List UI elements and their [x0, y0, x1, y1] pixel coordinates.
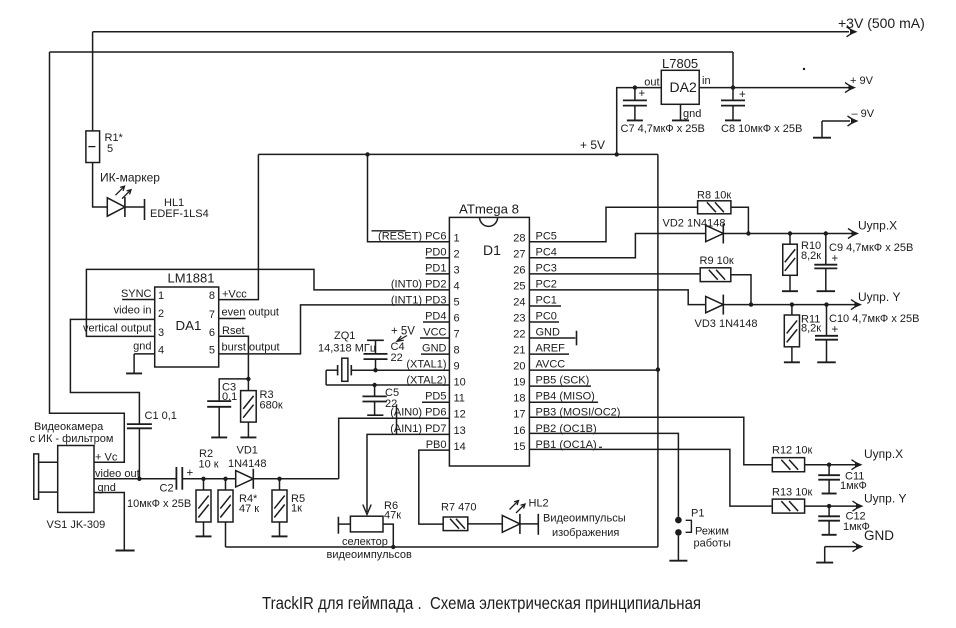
- svg-text:VCC: VCC: [423, 327, 446, 339]
- svg-text:2: 2: [454, 248, 460, 260]
- label L7805: [662, 56, 698, 71]
- svg-text:R7 470: R7 470: [441, 502, 476, 514]
- net +9V: [845, 75, 874, 93]
- svg-text:AREF: AREF: [536, 343, 566, 355]
- wire bottom rail: [226, 546, 658, 548]
- label +5V top: [580, 138, 605, 152]
- resistor R1: [86, 131, 100, 163]
- svg-text:1: 1: [454, 232, 460, 244]
- wire HL2 cathode: [520, 523, 538, 525]
- label C2: [160, 483, 174, 495]
- label + Vc: [95, 452, 118, 464]
- label R12 10к: [772, 445, 812, 457]
- wire XTAL2: [326, 384, 449, 386]
- label C10 value: [829, 313, 919, 325]
- wire SYNC stub: [122, 299, 155, 301]
- capacitor C12: [818, 506, 840, 521]
- svg-text:ИК-маркер: ИК-маркер: [100, 171, 160, 185]
- wire R4 to bottom rail: [225, 522, 227, 547]
- label R3: [260, 389, 274, 401]
- node DA2 out junction: [633, 85, 637, 89]
- label HL1: [164, 197, 184, 209]
- svg-text:6: 6: [209, 327, 215, 339]
- node C5 junction: [372, 383, 376, 387]
- resistor R7: [443, 517, 468, 531]
- resistor R4: [218, 479, 233, 522]
- label C9 value: [829, 242, 913, 254]
- diode VD1: [236, 469, 254, 489]
- ground camera: [116, 550, 135, 552]
- label R11 value: [801, 323, 821, 335]
- wire video to AIN0: [339, 418, 450, 479]
- svg-text:8: 8: [454, 345, 460, 357]
- diode VD2: [706, 224, 724, 244]
- svg-text:20: 20: [513, 361, 525, 373]
- pin 7 VCC: [420, 327, 460, 341]
- pin 26 PC3: [513, 262, 557, 276]
- svg-text:ZQ1: ZQ1: [334, 330, 355, 342]
- pin 12 (AIN0) PD6: [390, 407, 466, 421]
- svg-text:PD1: PD1: [425, 262, 446, 274]
- svg-text:6: 6: [454, 313, 460, 325]
- ground C7: [627, 106, 643, 121]
- svg-text:Uупр. Y: Uупр. Y: [864, 492, 907, 506]
- wire PC5 to R8: [529, 207, 697, 242]
- ground GND net: [816, 547, 833, 563]
- svg-text:Видеокамера: Видеокамера: [34, 421, 104, 433]
- svg-text:22: 22: [385, 398, 397, 410]
- svg-text:с ИК - фильтром: с ИК - фильтром: [30, 433, 114, 445]
- svg-text:28: 28: [513, 232, 525, 244]
- label работы: [694, 538, 731, 550]
- label R4*: [239, 493, 258, 505]
- switch P1 contacts: [675, 517, 691, 536]
- svg-text:4: 4: [158, 344, 164, 356]
- wire R6 right lead: [383, 524, 393, 547]
- label ATmega 8: [459, 202, 519, 217]
- svg-text:EDEF-1LS4: EDEF-1LS4: [150, 208, 209, 220]
- camera lens: [34, 454, 58, 499]
- pin 8 GND: [421, 343, 460, 357]
- op-amp U? sync separator DA1: [155, 287, 219, 367]
- label C2 value: [127, 498, 191, 510]
- pin 25 PC2: [513, 278, 557, 292]
- pin 11 PD5: [422, 391, 465, 405]
- svg-text:(RESET) PC6: (RESET) PC6: [378, 230, 446, 242]
- label R1 value 5: [107, 143, 113, 155]
- label gnd camera: [98, 482, 116, 494]
- svg-text:+ 5V: + 5V: [391, 326, 415, 338]
- label Видеоимпульсы: [543, 513, 626, 525]
- net +3V (500 mA): [838, 15, 925, 37]
- wire +Vcc to +5V: [219, 154, 259, 299]
- resistor R2: [196, 479, 211, 522]
- resistor R8: [698, 201, 731, 214]
- wire PB0 to R7: [419, 450, 450, 524]
- pin 22 GND: [513, 327, 560, 341]
- ground C11: [822, 480, 837, 494]
- label VD1: [237, 444, 258, 456]
- svg-text:9: 9: [454, 361, 460, 373]
- terminal C5: [367, 414, 383, 416]
- svg-text:10 к: 10 к: [199, 458, 219, 470]
- wire R9 to Y line: [731, 275, 751, 305]
- svg-text:GND: GND: [536, 327, 561, 339]
- label VD2 1N4148: [663, 218, 726, 230]
- wire DA1 gnd: [134, 353, 155, 355]
- wire R6 left lead: [338, 523, 350, 525]
- label gnd DA2: [683, 108, 701, 120]
- svg-text:out: out: [644, 77, 659, 89]
- wire stray AIN segment: [396, 404, 398, 434]
- svg-text:изображения: изображения: [552, 527, 619, 539]
- capacitor C4: [364, 340, 388, 370]
- label ИК-маркер: [100, 171, 160, 185]
- label DA1: [176, 318, 202, 333]
- node R9 junction: [749, 302, 753, 306]
- svg-text:P1: P1: [691, 508, 704, 520]
- wire +9V down left side: [50, 52, 125, 462]
- svg-text:+: +: [739, 89, 746, 101]
- pin 16 PB2 (OC1B): [513, 423, 596, 437]
- net GND: [825, 528, 895, 552]
- label C12 value: [843, 521, 870, 533]
- wire DA2 in: [699, 87, 849, 89]
- pin 14 PB0: [426, 439, 466, 453]
- label gnd DA1: [133, 341, 151, 353]
- svg-text:LM1881: LM1881: [168, 271, 215, 286]
- label изображения: [552, 527, 619, 539]
- terminal GND pin22: [576, 331, 578, 346]
- pin 1 (RESET) PC6: [372, 230, 460, 244]
- node R6 bottom junction: [391, 545, 395, 549]
- label C7 value: [621, 123, 705, 135]
- capacitor C11: [818, 465, 840, 480]
- wire PC3 to R9: [529, 273, 700, 275]
- capacitor C8: [721, 88, 746, 106]
- ground DA1: [126, 354, 142, 374]
- svg-text:+: +: [187, 468, 194, 480]
- label R10: [801, 240, 821, 252]
- label R6 value: [384, 510, 401, 522]
- ground C10: [817, 340, 836, 363]
- wire X2 line: [805, 464, 856, 466]
- svg-text:24: 24: [513, 296, 525, 308]
- wire vertical output to INT0: [86, 269, 449, 336]
- svg-text:+ Vc: + Vc: [95, 452, 118, 464]
- svg-text:PD5: PD5: [425, 391, 446, 403]
- resistor R9: [700, 268, 731, 282]
- pin 15 trailing dash: [599, 446, 602, 448]
- label VD1 1N4148: [228, 458, 267, 470]
- svg-text:+ 9V: + 9V: [850, 75, 874, 87]
- svg-text:21: 21: [513, 345, 525, 357]
- svg-text:13: 13: [454, 425, 466, 437]
- node stray dot: [803, 68, 805, 70]
- pin 3 number: [158, 327, 164, 339]
- ground C12: [822, 521, 837, 535]
- svg-text:PC0: PC0: [536, 311, 557, 323]
- wire AVCC pin20: [529, 369, 658, 371]
- svg-text:(XTAL1): (XTAL1): [406, 359, 446, 371]
- resistor R13: [772, 499, 804, 513]
- svg-text:Режим: Режим: [695, 526, 729, 538]
- pin 4 (INT0) PD2: [391, 278, 460, 292]
- svg-text:video in: video in: [114, 305, 152, 317]
- wire Rset to C3: [219, 379, 248, 401]
- svg-text:burst output: burst output: [222, 342, 280, 354]
- wire +3V rail: [93, 31, 849, 33]
- svg-text:11: 11: [454, 393, 465, 405]
- svg-text:R8 10к: R8 10к: [697, 190, 731, 202]
- svg-text:Видеоимпульсы: Видеоимпульсы: [543, 513, 626, 525]
- svg-text:R9 10к: R9 10к: [700, 255, 734, 267]
- label C3: [222, 382, 236, 394]
- capacitor C7: [623, 88, 647, 106]
- pin 24 PC1: [513, 294, 561, 308]
- svg-text:PB4 (MISO): PB4 (MISO): [536, 391, 595, 403]
- wire PB1 to R13: [529, 449, 772, 506]
- svg-text:D1: D1: [483, 242, 501, 258]
- svg-text:27: 27: [513, 248, 525, 260]
- pin 19 PB5 (SCK): [513, 375, 591, 389]
- diode VD3: [706, 295, 724, 315]
- svg-text:3: 3: [454, 264, 460, 276]
- node C12 junction: [827, 504, 831, 508]
- pin 13 (AIN1) PD7: [390, 423, 466, 437]
- svg-text:+3V (500 mA): +3V (500 mA): [838, 15, 925, 31]
- wire +9V rail segment: [50, 51, 734, 53]
- svg-text:VD3 1N4148: VD3 1N4148: [695, 318, 758, 330]
- wire AIN1 to R6 wiper: [363, 434, 450, 514]
- capacitor C2: [176, 467, 193, 490]
- wire even output stub: [219, 318, 246, 320]
- pin 27 PC4: [513, 246, 557, 260]
- svg-text:8,2к: 8,2к: [801, 323, 821, 335]
- svg-text:22: 22: [513, 329, 525, 341]
- label C8 value: [721, 123, 802, 135]
- svg-text:+: +: [832, 324, 839, 336]
- svg-text:1N4148: 1N4148: [228, 458, 267, 470]
- ground DA2: [672, 113, 689, 120]
- wire rail to DA2 in: [732, 52, 734, 88]
- svg-text:селектор: селектор: [342, 536, 388, 548]
- node C9 junction: [824, 231, 828, 235]
- label Режим: [695, 526, 729, 538]
- node C10 junction: [824, 302, 828, 306]
- svg-text:L7805: L7805: [662, 56, 698, 71]
- svg-text:работы: работы: [694, 538, 731, 550]
- resistor R5: [272, 479, 287, 522]
- svg-text:47к: 47к: [384, 510, 401, 522]
- label с ИК - фильтром: [30, 433, 114, 445]
- wire PB3 to R12: [529, 417, 772, 465]
- svg-text:16: 16: [513, 425, 525, 437]
- pin 1 number: [158, 290, 164, 302]
- svg-text:14,318 МГц: 14,318 МГц: [318, 343, 377, 355]
- svg-text:PC1: PC1: [536, 294, 557, 306]
- svg-text:+: +: [639, 88, 646, 100]
- ground R3: [240, 422, 256, 437]
- node DA2 in junction: [731, 85, 735, 89]
- node R5 junction: [277, 477, 281, 481]
- resistor R12: [772, 458, 804, 472]
- svg-text:(AIN1) PD7: (AIN1) PD7: [390, 423, 446, 435]
- net Uupr.X bottom: [852, 447, 904, 470]
- svg-text:Uупр. Y: Uупр. Y: [858, 290, 901, 304]
- pin 8 number: [209, 290, 215, 302]
- svg-text:vertical output: vertical output: [83, 323, 151, 335]
- label C11 value: [840, 480, 867, 492]
- svg-text:C2: C2: [160, 483, 174, 495]
- svg-text:+: +: [832, 253, 839, 265]
- capacitor C1: [127, 424, 152, 479]
- pin 20 AVCC: [513, 359, 565, 373]
- pin 18 PB4 (MISO): [513, 391, 598, 405]
- ground R5: [272, 522, 288, 536]
- capacitor C3: [207, 401, 231, 407]
- wire P1 to ground: [677, 536, 679, 552]
- wire DA2 out: [617, 88, 662, 155]
- svg-text:5: 5: [209, 344, 215, 356]
- pin 9 (XTAL1): [406, 359, 459, 373]
- svg-text:gnd: gnd: [133, 341, 151, 353]
- wire video line: [182, 478, 235, 480]
- label R6: [384, 500, 398, 512]
- op-amp U? voltage regulator DA2: [661, 70, 699, 104]
- label in: [702, 75, 711, 87]
- node C1 junction: [137, 477, 141, 481]
- svg-text:Uупр.X: Uупр.X: [864, 447, 903, 461]
- ground C9: [817, 268, 836, 291]
- wire video out: [94, 478, 176, 480]
- capacitor C9: [814, 234, 838, 269]
- svg-text:23: 23: [513, 313, 525, 325]
- svg-text:26: 26: [513, 264, 525, 276]
- svg-text:PC4: PC4: [536, 246, 557, 258]
- label R1*: [105, 132, 124, 144]
- svg-text:even output: even output: [222, 306, 280, 318]
- svg-text:22: 22: [391, 352, 403, 364]
- label +Vcc: [222, 289, 247, 301]
- svg-text:SYNC: SYNC: [121, 288, 152, 300]
- wire +5V rail: [258, 153, 658, 155]
- wire PB2 to P1: [529, 433, 678, 517]
- net Uupr.Y: [851, 290, 901, 310]
- svg-text:C7 4,7мкФ x 25В: C7 4,7мкФ x 25В: [621, 123, 705, 135]
- svg-text:PD4: PD4: [425, 311, 446, 323]
- svg-text:18: 18: [513, 393, 525, 405]
- label P1: [691, 508, 704, 520]
- svg-text:Rset: Rset: [222, 325, 245, 337]
- resistor R10: [783, 234, 798, 276]
- wire R1 to HL1: [93, 163, 108, 208]
- svg-text:+Vcc: +Vcc: [222, 289, 247, 301]
- svg-text:1мкФ: 1мкФ: [840, 480, 867, 492]
- pin 23 PC0: [513, 311, 559, 325]
- svg-text:R12 10к: R12 10к: [772, 445, 812, 457]
- wire XTAL1: [351, 369, 449, 371]
- label R5 value: [291, 503, 302, 515]
- wire PC4 to VD2: [529, 234, 705, 258]
- svg-text:12: 12: [454, 409, 466, 421]
- LED HL2: [502, 501, 525, 534]
- svg-text:15: 15: [513, 441, 525, 453]
- label EDEF-1LS4: [150, 208, 209, 220]
- terminal HL2: [537, 514, 539, 535]
- wire video in: [70, 319, 154, 424]
- wire R7 to HL2: [468, 523, 503, 525]
- label LM1881: [168, 271, 215, 286]
- transistor? camera VS1 body: [58, 446, 94, 513]
- wire HL1 cathode: [125, 206, 145, 208]
- label C4 value: [391, 352, 403, 364]
- label SYNC: [121, 288, 152, 300]
- node R11 junction: [790, 302, 794, 306]
- node +5V-out junction: [615, 152, 619, 156]
- label out: [644, 77, 659, 89]
- ground -9V: [813, 121, 831, 138]
- svg-text:(INT0) PD2: (INT0) PD2: [391, 278, 447, 290]
- net Uupr.X: [848, 219, 897, 239]
- terminal HL1: [144, 199, 146, 220]
- svg-text:5: 5: [454, 296, 460, 308]
- label Видеокамера: [34, 421, 104, 433]
- node Rset junction: [246, 377, 250, 381]
- svg-text:PD0: PD0: [425, 246, 446, 258]
- pin 4 number: [158, 344, 164, 356]
- label R7 470: [441, 502, 476, 514]
- label R10 value: [801, 250, 821, 262]
- svg-text:C1 0,1: C1 0,1: [145, 410, 177, 422]
- wire burst output to INT1: [219, 305, 450, 354]
- svg-text:DA2: DA2: [670, 79, 697, 95]
- wire +5V down to AVCC and bottom: [657, 154, 659, 547]
- label VS1 JK-309: [47, 519, 106, 531]
- label DA2: [670, 79, 697, 95]
- label C11: [845, 471, 864, 483]
- svg-text:ATmega 8: ATmega 8: [459, 202, 519, 217]
- pin 6 number: [209, 327, 215, 339]
- wire +5V to RESET: [368, 154, 450, 241]
- pin 3 PD1: [425, 262, 460, 276]
- op-amp? MCU D1 body: [449, 217, 529, 466]
- label burst output: [222, 342, 280, 354]
- svg-text:AVCC: AVCC: [536, 359, 566, 371]
- svg-text:3: 3: [158, 327, 164, 339]
- net +5V arrow: [397, 336, 407, 342]
- node R8 junction: [746, 231, 750, 235]
- capacitor C10: [815, 305, 839, 340]
- svg-text:VD1: VD1: [237, 444, 258, 456]
- pin 17 PB3 (MOSI/OC2): [513, 407, 620, 421]
- node +5V-reset junction: [365, 152, 369, 156]
- svg-text:Uупр.X: Uупр.X: [858, 219, 897, 233]
- svg-text:680к: 680к: [260, 400, 283, 412]
- label R8 10к: [697, 190, 731, 202]
- label C12: [846, 511, 866, 523]
- pin 2 PD0: [425, 246, 460, 260]
- svg-text:VS1 JK-309: VS1 JK-309: [47, 519, 106, 531]
- svg-text:– 9V: – 9V: [852, 108, 875, 120]
- svg-text:PB0: PB0: [426, 439, 447, 451]
- svg-text:PB5 (SCK): PB5 (SCK): [536, 375, 590, 387]
- svg-text:0,1: 0,1: [222, 391, 237, 403]
- pin 5 (INT1) PD3: [391, 294, 460, 308]
- wire rail to R1: [92, 32, 94, 131]
- svg-text:R13 10к: R13 10к: [772, 487, 812, 499]
- label VD3 1N4148: [695, 318, 758, 330]
